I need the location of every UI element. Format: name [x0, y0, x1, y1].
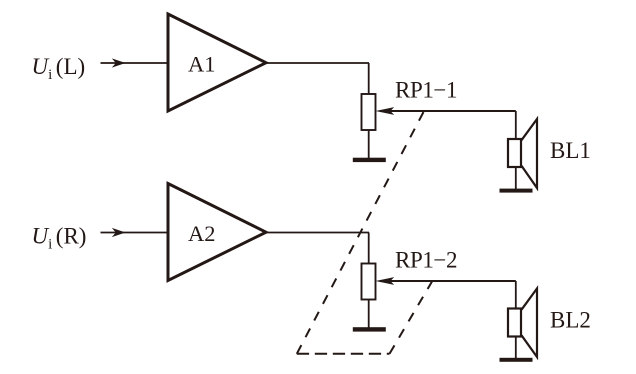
- op-amp A2: [168, 184, 266, 281]
- ground RP1-1: [353, 158, 386, 162]
- wire BL1 to ground: [515, 167, 517, 190]
- svg-text:A2: A2: [188, 221, 216, 246]
- wire A1 output: [266, 62, 369, 64]
- svg-text:Ui(R): Ui(R): [32, 224, 87, 253]
- wire A2 output: [266, 232, 369, 234]
- wire down to RP1-1 top: [368, 63, 370, 95]
- svg-text:A1: A1: [188, 52, 216, 77]
- svg-text:Ui(L): Ui(L): [32, 54, 86, 83]
- wire RP1-1 bottom to ground: [368, 130, 370, 159]
- wire input L: [101, 62, 169, 64]
- arrow input R direction: [112, 228, 126, 237]
- svg-text:BL1: BL1: [550, 138, 591, 163]
- wire wiper RP1-2 down to BL2: [515, 281, 517, 310]
- op-amp A1: [168, 14, 266, 111]
- wiper arrow RP1-2: [376, 277, 516, 285]
- speaker BL2: [508, 289, 537, 358]
- dashed gang link lower diagonal to RP1-2 wiper: [390, 282, 433, 354]
- svg-text:RP1−2: RP1−2: [395, 248, 457, 273]
- wiper arrow RP1-1: [376, 107, 516, 115]
- ground BL2: [500, 358, 533, 362]
- svg-text:RP1−1: RP1−1: [395, 78, 457, 103]
- arrow input L direction: [112, 58, 126, 67]
- ground RP1-2: [353, 327, 386, 331]
- svg-text:BL2: BL2: [550, 308, 591, 333]
- wire down to RP1-2 top: [368, 233, 370, 265]
- dashed gang link bottom segment: [297, 353, 390, 355]
- potentiometer RP1-2 body: [362, 264, 376, 300]
- potentiometer RP1-1 body: [362, 94, 376, 130]
- speaker BL1: [508, 119, 537, 188]
- ground BL1: [500, 189, 533, 193]
- wire wiper RP1-1 down to BL1: [515, 111, 517, 140]
- wire input R: [101, 232, 169, 234]
- wire RP1-2 bottom to ground: [368, 300, 370, 329]
- dashed gang link upper diagonal from RP1-1 wiper: [297, 112, 424, 354]
- wire BL2 to ground: [515, 337, 517, 359]
